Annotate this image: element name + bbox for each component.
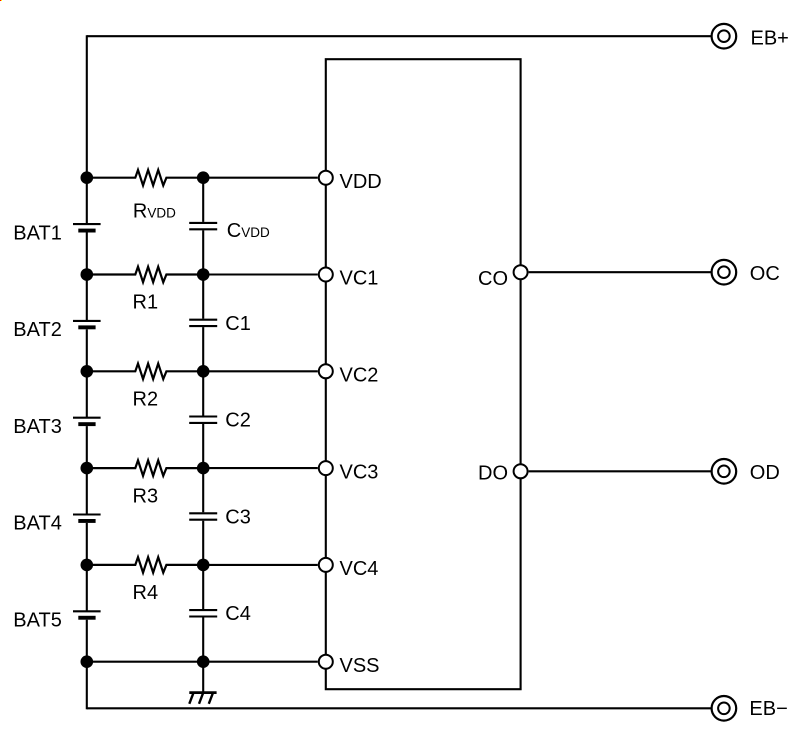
wire battery rail segment above BAT4: [86, 468, 88, 514]
battery BAT5: [73, 611, 101, 661]
terminal OC: [712, 260, 737, 285]
svg-text:C3: C3: [225, 506, 251, 528]
wire cap rail segment above C4: [202, 565, 204, 609]
terminal OD: [712, 459, 737, 484]
wire left rail bottom segment: [86, 662, 88, 710]
resistor R4: [87, 557, 203, 573]
wire CO to OC: [529, 271, 712, 273]
capacitor C3: [189, 513, 217, 565]
svg-text:C1: C1: [225, 313, 251, 335]
node junction cap rail: [197, 268, 210, 281]
svg-text:C2: C2: [225, 410, 251, 432]
battery BAT3: [73, 418, 101, 468]
pin VC4: [319, 558, 333, 572]
wire to pin: [203, 273, 318, 275]
node junction left rail: [81, 559, 94, 572]
svg-text:R3: R3: [133, 485, 159, 507]
pin VC2: [319, 364, 333, 378]
capacitor C4: [189, 610, 217, 662]
svg-text:OC: OC: [750, 263, 780, 285]
capacitor C2: [189, 417, 217, 469]
battery BAT4: [73, 515, 101, 565]
artifact corner pixels: [0, 0, 1, 1]
terminal EB+: [712, 24, 737, 49]
node junction cap rail: [197, 171, 210, 184]
battery BAT2: [73, 321, 101, 371]
wire battery rail segment above BAT1: [86, 178, 88, 224]
wire left rail top segment: [86, 35, 88, 178]
wire to pin: [203, 370, 318, 372]
wire to pin: [203, 467, 318, 469]
wire cap rail segment above C1: [202, 275, 204, 319]
svg-text:VC2: VC2: [340, 365, 379, 387]
wire battery rail segment above BAT2: [86, 275, 88, 321]
wire cap rail segment above C3: [202, 468, 204, 512]
wire battery rail segment above BAT3: [86, 371, 88, 417]
node junction cap rail: [197, 365, 210, 378]
capacitor CVDD: [189, 223, 217, 275]
svg-text:BAT5: BAT5: [13, 610, 62, 632]
capacitor C1: [189, 320, 217, 372]
node junction cap rail: [197, 655, 210, 668]
svg-text:C4: C4: [225, 603, 251, 625]
terminal EB-: [712, 696, 737, 721]
svg-text:VC3: VC3: [340, 461, 379, 483]
node junction left rail: [81, 365, 94, 378]
wire to pin: [203, 177, 318, 179]
resistor R3: [87, 460, 203, 476]
svg-text:BAT1: BAT1: [13, 222, 62, 244]
svg-text:EB+: EB+: [751, 28, 789, 50]
wire battery rail segment above BAT5: [86, 565, 88, 611]
svg-text:BAT4: BAT4: [13, 513, 62, 535]
IC box U1: [326, 59, 521, 689]
node junction left rail: [81, 171, 94, 184]
svg-text:VSS: VSS: [340, 655, 380, 677]
svg-text:R4: R4: [133, 582, 159, 604]
wire cap rail segment above C2: [202, 371, 204, 415]
wire DO to OD: [529, 470, 712, 472]
wire VSS row: [87, 661, 318, 663]
pin VC3: [319, 461, 333, 475]
svg-text:R1: R1: [133, 292, 159, 314]
resistor R1: [87, 267, 203, 283]
svg-text:VDD: VDD: [340, 171, 382, 193]
svg-text:VC4: VC4: [340, 558, 379, 580]
svg-text:BAT3: BAT3: [13, 416, 62, 438]
pin VC1: [319, 268, 333, 282]
pin CO: [514, 265, 528, 279]
svg-text:DO: DO: [478, 463, 508, 485]
node junction cap rail: [197, 462, 210, 475]
svg-text:R2: R2: [133, 389, 159, 411]
svg-text:BAT2: BAT2: [13, 319, 62, 341]
resistor RVDD: [87, 170, 203, 186]
wire bottom rail to EB-: [87, 707, 712, 709]
battery BAT1: [73, 224, 101, 274]
svg-text:CO: CO: [478, 268, 508, 290]
wire top rail to EB+: [87, 35, 712, 37]
wire to pin: [203, 564, 318, 566]
svg-text:EB−: EB−: [749, 698, 787, 720]
svg-text:VC1: VC1: [340, 268, 379, 290]
pin VDD: [319, 171, 333, 185]
pin DO: [514, 464, 528, 478]
node junction left rail: [81, 462, 94, 475]
ground: [189, 662, 216, 704]
wire cap rail segment above CVDD: [202, 178, 204, 222]
svg-text:OD: OD: [750, 462, 780, 484]
pin VSS: [319, 655, 333, 669]
resistor R2: [87, 364, 203, 380]
node junction left rail: [81, 268, 94, 281]
node junction left rail: [81, 655, 94, 668]
node junction cap rail: [197, 559, 210, 572]
